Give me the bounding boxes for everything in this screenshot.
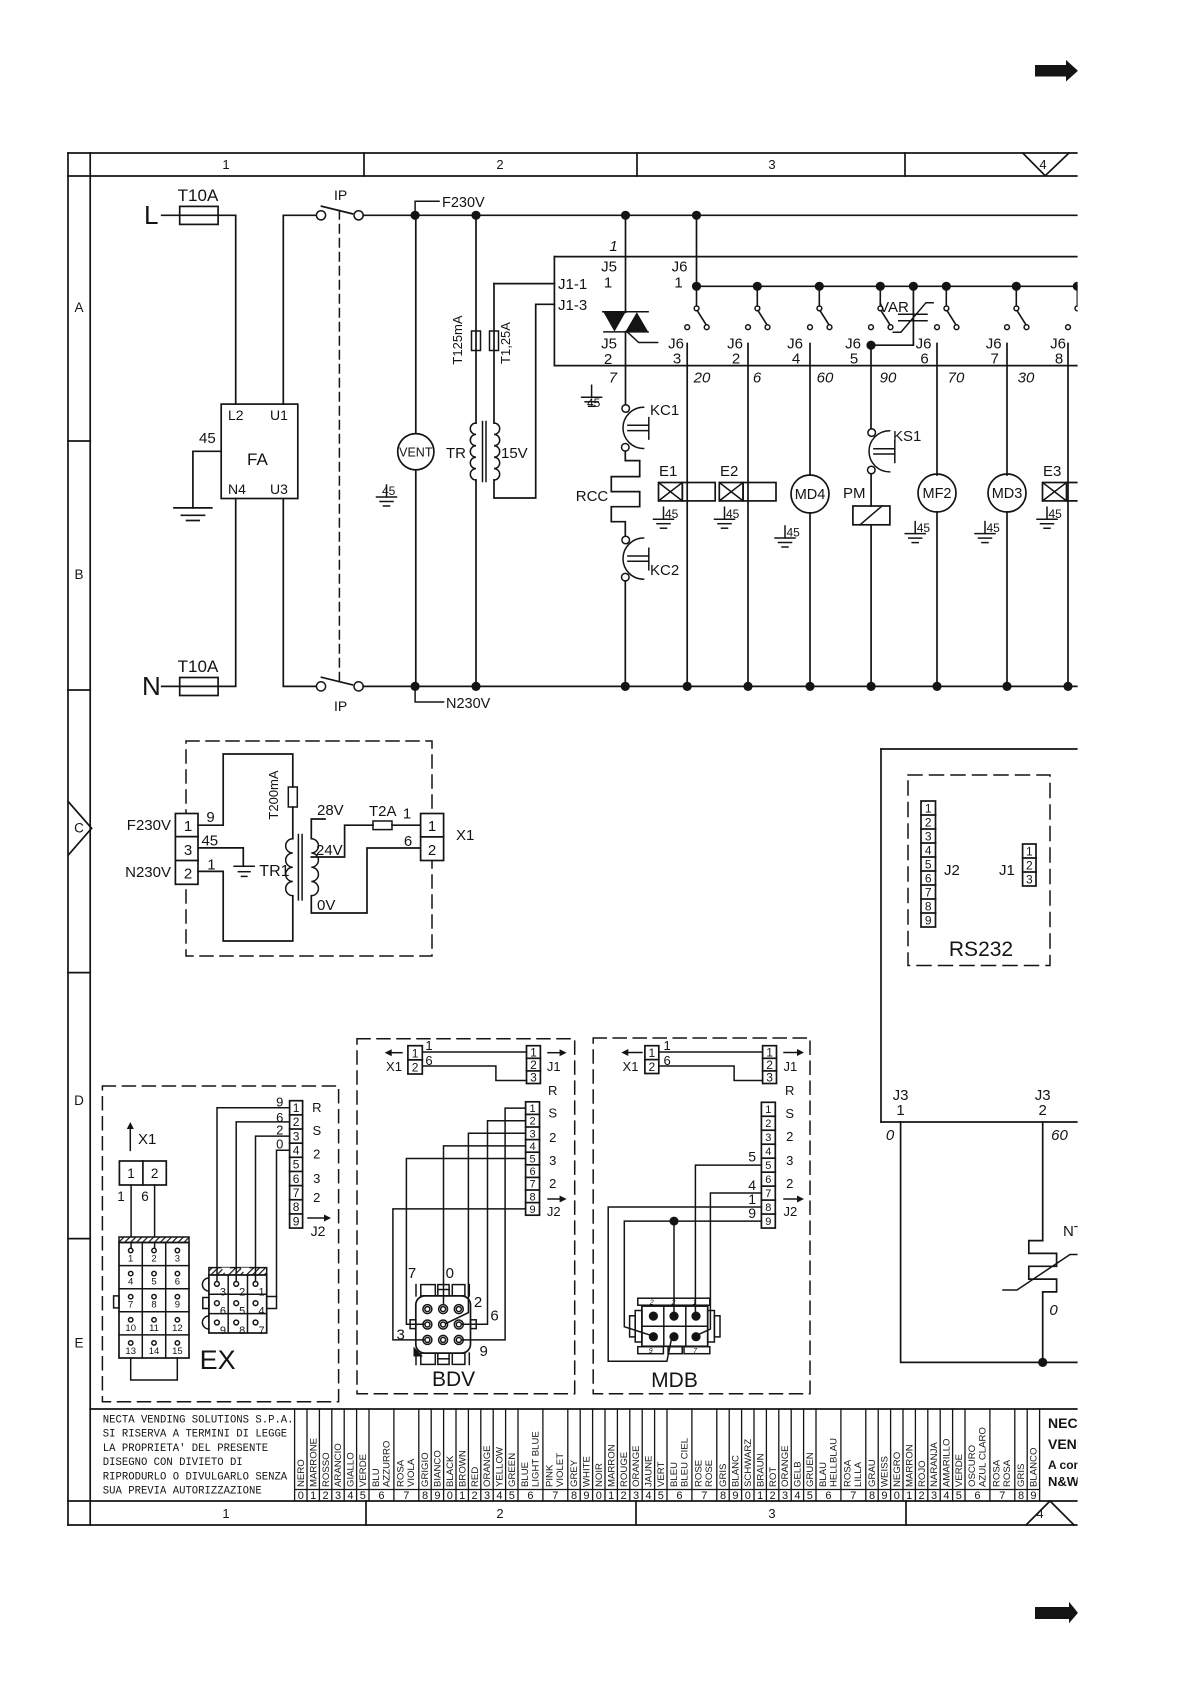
svg-text:ORANGE: ORANGE (780, 1445, 791, 1487)
svg-text:24V: 24V (316, 842, 343, 859)
svg-text:45: 45 (587, 396, 601, 410)
box MDB (dashed) (593, 1038, 810, 1394)
svg-text:GRAU: GRAU (867, 1459, 878, 1487)
svg-text:2: 2 (412, 1061, 419, 1075)
wire 0V to X1-2 (311, 848, 420, 913)
switch IP (top) (316, 206, 363, 220)
svg-text:VERT: VERT (656, 1461, 667, 1487)
svg-text:45: 45 (665, 507, 679, 521)
connector J1 (RS232) (1023, 844, 1036, 886)
svg-text:2: 2 (151, 1166, 159, 1181)
svg-text:NTC: NTC (1063, 1223, 1094, 1240)
svg-text:J1-3: J1-3 (558, 297, 587, 314)
svg-text:7: 7 (999, 1490, 1005, 1502)
svg-text:NECTA: NECTA (1048, 1415, 1095, 1431)
wire BDV J2-3 (446, 1133, 526, 1323)
svg-text:14: 14 (149, 1346, 160, 1357)
svg-text:4: 4 (645, 1490, 651, 1502)
svg-text:3: 3 (184, 842, 192, 859)
fuse T10A (line) (180, 206, 218, 224)
svg-text:4: 4 (529, 1141, 535, 1153)
svg-text:X1: X1 (138, 1131, 156, 1148)
svg-text:2: 2 (323, 1490, 329, 1502)
svg-text:0: 0 (298, 1490, 304, 1502)
svg-text:SCHWARZ: SCHWARZ (743, 1439, 754, 1487)
triac J5 (603, 312, 658, 343)
svg-text:3: 3 (931, 1490, 937, 1502)
svg-text:3: 3 (220, 1286, 226, 1298)
thermistor NTC (1003, 1223, 1094, 1367)
svg-text:9: 9 (293, 1214, 300, 1228)
wire J3-1 down (901, 1122, 1078, 1362)
svg-text:0: 0 (886, 1127, 895, 1144)
svg-text:6: 6 (527, 1490, 533, 1502)
svg-text:5: 5 (850, 351, 858, 368)
svg-text:1: 1 (310, 1490, 316, 1502)
heater E3 (1043, 463, 1078, 501)
svg-text:5: 5 (956, 1490, 962, 1502)
box control board J5/J6 (554, 257, 1077, 366)
wire BDV J2-1 (462, 1108, 526, 1340)
svg-text:KC2: KC2 (650, 562, 679, 579)
svg-text:EX: EX (200, 1345, 236, 1375)
svg-text:BIANCO: BIANCO (433, 1450, 444, 1487)
svg-text:VIOLET: VIOLET (555, 1453, 566, 1487)
svg-text:T10A: T10A (178, 186, 219, 205)
svg-text:6: 6 (753, 370, 762, 387)
box control board (RS232 side) (881, 749, 1078, 1122)
svg-text:3: 3 (673, 351, 681, 368)
svg-text:0: 0 (1049, 1302, 1058, 1319)
svg-text:4: 4 (792, 351, 800, 368)
ground 45 (E1) (654, 507, 679, 528)
svg-text:1: 1 (293, 1101, 300, 1115)
svg-text:MD4: MD4 (795, 487, 826, 503)
svg-text:3: 3 (293, 1129, 300, 1143)
svg-text:3: 3 (768, 1506, 775, 1521)
svg-text:5: 5 (239, 1306, 245, 1318)
wire MDB J2-8 (608, 1207, 761, 1361)
svg-text:9: 9 (1030, 1490, 1036, 1502)
svg-text:X1: X1 (623, 1059, 639, 1074)
wire triac to KC1 (625, 332, 627, 405)
label J2 (BDV) (547, 1196, 567, 1220)
svg-text:2: 2 (1026, 858, 1033, 872)
svg-text:20: 20 (693, 370, 711, 387)
svg-text:ROSA: ROSA (992, 1459, 1003, 1487)
svg-text:NARANJA: NARANJA (929, 1442, 940, 1487)
svg-text:0: 0 (894, 1490, 900, 1502)
svg-text:5: 5 (293, 1158, 300, 1172)
svg-text:3: 3 (397, 1327, 405, 1344)
svg-text:4: 4 (765, 1146, 771, 1158)
svg-text:FA: FA (247, 450, 268, 469)
svg-text:7: 7 (403, 1490, 409, 1502)
svg-text:GELB: GELB (793, 1461, 804, 1487)
switch J6 c8 (1066, 282, 1090, 330)
svg-text:A comp: A comp (1048, 1458, 1092, 1472)
svg-text:J1: J1 (999, 862, 1015, 879)
svg-text:4: 4 (496, 1490, 502, 1502)
node F230V junction TR (471, 211, 480, 220)
switch J6 c7 (1005, 282, 1029, 330)
svg-text:12: 12 (172, 1323, 183, 1334)
svg-text:5: 5 (658, 1490, 664, 1502)
svg-text:2: 2 (184, 866, 192, 883)
relay coil PM (843, 474, 890, 691)
svg-text:45: 45 (199, 430, 216, 447)
svg-text:DISEGNO CON DIVIETO DI: DISEGNO CON DIVIETO DI (103, 1457, 243, 1469)
svg-text:7: 7 (529, 1179, 535, 1191)
svg-text:5: 5 (748, 1149, 756, 1165)
svg-text:7: 7 (552, 1490, 558, 1502)
arrow X1 (BDV) (385, 1049, 402, 1074)
svg-text:5: 5 (151, 1277, 156, 1288)
wire J6 bus (697, 285, 1078, 287)
svg-text:60: 60 (1051, 1127, 1068, 1144)
svg-text:2: 2 (496, 1506, 503, 1521)
wire pin2 to primary (198, 871, 293, 941)
heater E1 (659, 463, 716, 501)
svg-text:HELLBLAU: HELLBLAU (828, 1438, 839, 1487)
svg-text:6: 6 (676, 1490, 682, 1502)
svg-text:J2: J2 (547, 1204, 561, 1219)
svg-text:ARANCIO: ARANCIO (333, 1443, 344, 1487)
svg-text:VENDIN: VENDIN (1048, 1436, 1101, 1452)
svg-text:45: 45 (987, 521, 1001, 535)
ground 45 (E2) (715, 507, 740, 528)
arrow X1 (EX) (127, 1122, 157, 1150)
svg-text:6: 6 (293, 1172, 300, 1186)
svg-text:70: 70 (948, 370, 965, 387)
svg-text:RIPRODURLO O DIVULGARLO SENZA: RIPRODURLO O DIVULGARLO SENZA (103, 1471, 288, 1483)
svg-text:ROSSO: ROSSO (321, 1452, 332, 1487)
svg-text:9: 9 (175, 1300, 180, 1311)
svg-text:BLACK: BLACK (445, 1455, 456, 1487)
svg-text:9: 9 (480, 1343, 488, 1360)
svg-text:S: S (785, 1106, 794, 1121)
svg-text:5: 5 (509, 1490, 515, 1502)
thermostat KC1 (622, 402, 680, 451)
wire J6-7 column (1006, 344, 1008, 476)
svg-text:1: 1 (184, 818, 192, 835)
svg-text:0: 0 (446, 1265, 454, 1282)
svg-text:IP: IP (334, 187, 347, 203)
svg-text:2: 2 (496, 157, 503, 172)
svg-text:VERDE: VERDE (954, 1454, 965, 1487)
fuse T10A (neutral) (180, 678, 218, 696)
svg-text:2: 2 (919, 1490, 925, 1502)
svg-text:J2: J2 (784, 1204, 798, 1219)
switch IP (bottom) (316, 677, 363, 691)
svg-text:3: 3 (549, 1153, 556, 1168)
svg-text:8: 8 (765, 1202, 771, 1214)
svg-text:BROWN: BROWN (457, 1450, 468, 1487)
svg-text:JAUNE: JAUNE (644, 1456, 655, 1487)
svg-text:AMARILLO: AMARILLO (942, 1438, 953, 1487)
svg-text:4: 4 (794, 1490, 800, 1502)
svg-text:1: 1 (765, 1104, 771, 1116)
svg-text:BLAU: BLAU (818, 1462, 829, 1487)
svg-text:GRUEN: GRUEN (805, 1452, 816, 1487)
svg-text:45: 45 (1049, 507, 1063, 521)
svg-text:R: R (312, 1100, 321, 1115)
svg-text:X1: X1 (456, 827, 474, 844)
resistor RCC (576, 451, 640, 536)
connector F230V/N230V (175, 814, 198, 885)
wire MDB J2-9 (624, 1221, 761, 1335)
svg-text:8: 8 (293, 1200, 300, 1214)
svg-text:PM: PM (843, 485, 866, 502)
wire J6-3 column (686, 344, 688, 687)
wire J6-5 column (870, 344, 872, 429)
connector X1 (BDV) (408, 1046, 422, 1075)
ground 45 (J5) (582, 385, 602, 410)
svg-text:30: 30 (1018, 370, 1035, 387)
svg-text:60: 60 (817, 370, 834, 387)
connector keypad 15p (114, 1237, 189, 1380)
svg-text:1: 1 (1026, 844, 1033, 858)
svg-text:1: 1 (609, 238, 617, 255)
svg-text:2: 2 (770, 1490, 776, 1502)
connector X1 (MDB) (645, 1046, 659, 1074)
node F230V label (415, 201, 439, 215)
arrow (bottom right) (1035, 1602, 1078, 1624)
connector X1 (EX) (119, 1161, 166, 1185)
wire J5 column (625, 215, 627, 312)
svg-text:T125mA: T125mA (450, 315, 465, 364)
svg-text:S: S (548, 1106, 557, 1121)
wire X1-1 to J1-1 (MDB) (659, 1051, 763, 1053)
svg-text:45: 45 (787, 526, 801, 540)
ground 45 (MD3) (975, 521, 1000, 543)
connector J1 (BDV) (527, 1045, 541, 1084)
svg-text:5: 5 (360, 1490, 366, 1502)
svg-text:X1: X1 (386, 1059, 402, 1074)
svg-text:KS1: KS1 (893, 428, 921, 445)
svg-text:0: 0 (596, 1490, 602, 1502)
wire J6-6 column (936, 344, 938, 476)
svg-text:N&W GL: N&W GL (1048, 1474, 1101, 1489)
svg-text:7: 7 (408, 1265, 416, 1282)
svg-text:9: 9 (220, 1325, 226, 1337)
ground 45 (VENT) (377, 484, 397, 506)
svg-text:9: 9 (529, 1204, 535, 1216)
wire J6-8 column (1067, 344, 1069, 687)
svg-text:BDV: BDV (432, 1368, 475, 1391)
motor MD3 (988, 474, 1026, 691)
switch J6 c6 (935, 282, 959, 330)
svg-text:IP: IP (334, 698, 347, 714)
svg-text:NERO: NERO (296, 1459, 307, 1487)
svg-text:ROUGE: ROUGE (619, 1452, 630, 1487)
svg-text:1: 1 (403, 806, 411, 823)
svg-text:3: 3 (335, 1490, 341, 1502)
svg-text:BLANC: BLANC (731, 1455, 742, 1487)
ground 45 (MF2) (905, 521, 930, 543)
wire N to fuse (162, 685, 180, 687)
svg-text:6: 6 (141, 1189, 149, 1204)
fuse T1,25A (490, 284, 514, 423)
connector BDV 9p (410, 1285, 476, 1365)
svg-text:6: 6 (404, 833, 412, 850)
svg-text:GRIGIO: GRIGIO (420, 1452, 431, 1487)
svg-text:9: 9 (583, 1490, 589, 1502)
svg-text:2: 2 (428, 842, 436, 859)
border frame (68, 153, 1078, 1525)
svg-text:ROSE: ROSE (694, 1460, 705, 1487)
wire MDB J2-7 (699, 1193, 762, 1335)
svg-text:J2: J2 (944, 862, 960, 879)
svg-text:8: 8 (529, 1191, 535, 1203)
svg-text:ORANGE: ORANGE (631, 1445, 642, 1487)
svg-text:D: D (74, 1093, 84, 1108)
svg-text:15V: 15V (501, 445, 528, 462)
wire TR secondary to J1-1 (494, 283, 554, 285)
svg-text:28V: 28V (317, 802, 344, 819)
svg-text:9: 9 (732, 1490, 738, 1502)
ground 45 (MD4) (775, 526, 800, 548)
svg-text:RCC: RCC (576, 488, 609, 505)
connector J2 (MDB) (761, 1102, 775, 1228)
box TR1 (dashed) (186, 741, 432, 956)
motor MF2 (918, 474, 956, 691)
wire FA pin45 to ground (193, 451, 221, 508)
svg-text:3: 3 (765, 1132, 771, 1144)
wire pin3 to ground (198, 848, 243, 866)
svg-text:NEGRO: NEGRO (892, 1452, 903, 1487)
switch J6 c3 (746, 282, 770, 330)
switch KS1 (868, 428, 922, 474)
svg-text:VIOLA: VIOLA (406, 1458, 417, 1487)
svg-text:5: 5 (807, 1490, 813, 1502)
svg-text:2: 2 (313, 1147, 320, 1162)
svg-text:ROSA: ROSA (396, 1459, 407, 1487)
svg-text:2: 2 (529, 1116, 535, 1128)
connector J2 (RS232) (921, 801, 936, 927)
svg-text:E: E (74, 1336, 83, 1351)
svg-text:BLU: BLU (371, 1468, 382, 1487)
svg-text:2: 2 (1039, 1102, 1047, 1119)
svg-text:MARRON: MARRON (904, 1444, 915, 1487)
svg-text:2: 2 (313, 1190, 320, 1205)
svg-text:9: 9 (206, 809, 214, 826)
svg-text:2: 2 (549, 1130, 556, 1145)
svg-text:BLEU: BLEU (669, 1462, 680, 1487)
svg-text:ROSA: ROSA (843, 1459, 854, 1487)
wire KC2 to N (624, 581, 626, 686)
svg-text:GIALLO: GIALLO (346, 1452, 357, 1487)
wire fuse to FA N4 (218, 499, 236, 687)
svg-text:9: 9 (925, 913, 932, 927)
svg-text:1: 1 (222, 157, 229, 172)
svg-text:1: 1 (604, 275, 612, 292)
svg-text:E3: E3 (1043, 463, 1061, 480)
svg-text:LIGHT BLUE: LIGHT BLUE (530, 1431, 541, 1487)
svg-text:E1: E1 (659, 463, 677, 480)
svg-text:LA PROPRIETA' DEL PRESENTE: LA PROPRIETA' DEL PRESENTE (103, 1443, 268, 1455)
svg-text:1: 1 (608, 1490, 614, 1502)
wire X1-2 to J1-3 (MDB) (659, 1066, 763, 1081)
svg-text:1: 1 (412, 1047, 419, 1061)
svg-text:6: 6 (529, 1166, 535, 1178)
wire BDV J2-4 (444, 1146, 526, 1305)
motor VENT (398, 215, 434, 686)
svg-text:1: 1 (258, 1286, 264, 1298)
svg-text:GREY: GREY (569, 1459, 580, 1487)
svg-text:J5: J5 (601, 336, 617, 353)
label J2 (EX) (308, 1215, 331, 1240)
svg-text:3: 3 (530, 1071, 537, 1085)
switch J6 c2 (685, 282, 709, 330)
wire TR secondary to J1-3 (494, 304, 554, 498)
svg-text:2: 2 (276, 1123, 283, 1138)
svg-text:2: 2 (604, 351, 612, 368)
wire F230V rail (363, 214, 1077, 216)
svg-text:TR: TR (446, 445, 466, 462)
svg-text:B: B (74, 567, 83, 582)
varistor VAR (866, 282, 933, 350)
svg-text:NOIR: NOIR (594, 1463, 605, 1487)
svg-text:7: 7 (258, 1325, 264, 1337)
svg-text:BLUE: BLUE (520, 1462, 531, 1487)
wire 24V tap to fuse T2A (311, 825, 373, 857)
svg-text:3: 3 (786, 1153, 793, 1168)
svg-text:9: 9 (649, 1348, 653, 1355)
svg-text:GRIS: GRIS (718, 1464, 729, 1487)
svg-text:2: 2 (549, 1176, 556, 1191)
svg-text:9: 9 (765, 1216, 771, 1228)
svg-text:J5: J5 (601, 259, 617, 276)
label J2 (MDB) (784, 1196, 804, 1220)
svg-text:7: 7 (293, 1186, 300, 1200)
svg-text:1: 1 (757, 1490, 763, 1502)
svg-text:2: 2 (239, 1286, 245, 1298)
svg-text:3: 3 (175, 1254, 180, 1265)
svg-text:6: 6 (825, 1490, 831, 1502)
svg-text:L2: L2 (228, 407, 244, 423)
wire J6-2 column (747, 344, 749, 687)
svg-text:A: A (74, 300, 83, 315)
motor MD4 (791, 475, 829, 691)
svg-text:5: 5 (765, 1160, 771, 1172)
svg-text:2: 2 (648, 1060, 655, 1074)
connector J2 (EX) (290, 1101, 303, 1229)
switch J6 c5 (869, 282, 893, 330)
connector X1 (421, 814, 444, 861)
ground 45 (E3) (1037, 507, 1062, 528)
wire L to fuse (162, 214, 180, 216)
wire J6-1 feed (696, 215, 698, 286)
svg-text:2: 2 (472, 1490, 478, 1502)
svg-text:MARRONE: MARRONE (308, 1438, 319, 1487)
wire pin1 to fuse T200mA (198, 754, 293, 825)
svg-text:8: 8 (925, 899, 932, 913)
svg-text:8: 8 (239, 1325, 245, 1337)
transformer TR1 (286, 835, 319, 900)
svg-text:3: 3 (782, 1490, 788, 1502)
svg-text:45: 45 (917, 521, 931, 535)
svg-text:6: 6 (765, 1174, 771, 1186)
svg-text:2: 2 (765, 1118, 771, 1130)
svg-text:7: 7 (128, 1300, 133, 1311)
svg-text:6: 6 (175, 1277, 180, 1288)
wire BDV J2-2 (462, 1121, 526, 1325)
svg-text:NECTA VENDING SOLUTIONS S.P.A.: NECTA VENDING SOLUTIONS S.P.A. (103, 1415, 294, 1427)
svg-text:E2: E2 (720, 463, 738, 480)
svg-text:1: 1 (222, 1506, 229, 1521)
svg-text:OSCURO: OSCURO (967, 1445, 978, 1487)
